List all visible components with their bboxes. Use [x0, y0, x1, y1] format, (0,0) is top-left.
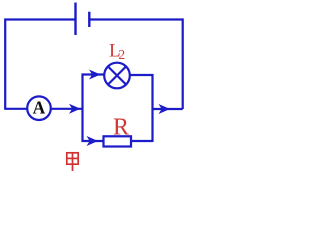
current arrow to right wire [159, 104, 171, 114]
svg-text:A: A [33, 97, 46, 117]
current arrow into lamp [89, 70, 101, 80]
svg-text:2: 2 [118, 47, 125, 62]
lamp branch wire right [130, 75, 153, 142]
wire top-right from battery to right side down [89, 20, 182, 110]
ammeter A1 circle [27, 96, 51, 120]
lamp L2 cross [108, 67, 126, 85]
current arrow after ammeter [69, 104, 81, 114]
wire bottom-left to ammeter [4, 108, 27, 110]
battery short plate (right) [88, 12, 90, 27]
resistor branch wire left [82, 140, 105, 142]
resistor branch wire right [131, 140, 153, 142]
left junction vertical wire [81, 74, 83, 143]
join wire to right side [153, 108, 183, 110]
lamp L2 circle [104, 63, 130, 89]
current arrow into resistor [87, 136, 99, 146]
svg-text:R: R [113, 115, 129, 141]
label jia (drawn glyph) [67, 153, 78, 171]
battery long plate (left) [74, 3, 76, 36]
wire ammeter to left junction node [51, 108, 83, 110]
resistor R box [104, 136, 132, 146]
lamp branch wire left [82, 73, 105, 75]
wire top-left from battery to left corner [5, 20, 75, 109]
